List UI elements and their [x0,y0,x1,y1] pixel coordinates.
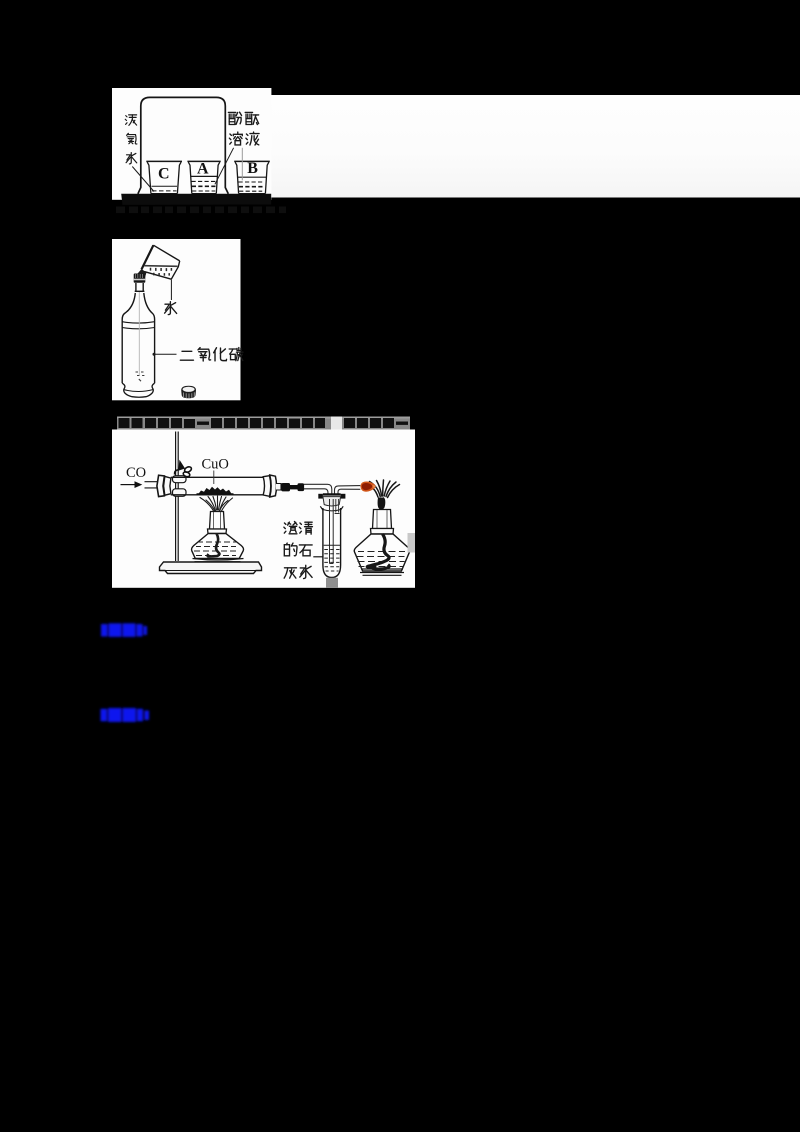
svg-text:B: B [247,160,258,177]
svg-text:A: A [197,161,209,178]
lamp 1 alcohol dashes [194,542,236,556]
bottle neck and shoulder [122,283,154,320]
beaker B [234,161,270,193]
white band behind diagram 1 (full width) [112,95,800,198]
lamp 2 base [360,569,404,575]
CO arrow [121,484,136,486]
bottle body [122,320,154,398]
iron stand base [160,562,262,574]
leader line to beaker C [132,167,154,192]
svg-text:CuO: CuO [202,457,229,473]
svg-text:C: C [158,166,170,183]
outlet nozzle [276,484,281,491]
bell jar [138,97,228,193]
CuO leader line [213,471,215,485]
outlet pipe rising from stopper [335,486,361,495]
beaker A [187,161,220,193]
right stopper [263,475,276,497]
inlet tube double line [145,482,159,488]
lamp 1 wick holder [208,512,227,534]
lamp 2 wick (wavy, inside) [370,534,389,569]
beaker C [146,161,182,193]
glass tube body [171,477,264,495]
burner flame wisps [200,496,233,511]
grey block under test tube [326,578,338,588]
grey patch at panel right edge [408,533,416,553]
label fen-tai (phenolphthalein) [236,112,242,124]
er-yang-hua-tan label (carbon dioxide) [153,353,156,356]
pouring stream into bottle mouth [137,269,147,279]
test tube body [323,508,341,578]
limewater surface and dashes [324,545,340,571]
hui-shui label [284,568,296,578]
faint grey text band above diagram 3 [117,417,410,430]
clamp jaws [173,476,187,483]
flame at gas outlet tip [360,481,376,491]
lamp 1 base [193,559,244,562]
label nong-an-shui (vertical) [125,115,136,126]
rubber connector blobs [281,483,290,491]
thin tube to elbow [304,484,328,489]
left stopper [157,475,171,496]
water dashes inside beaker [151,268,172,276]
lamp 2 wick holder [371,510,394,535]
moisture mark inside bottle bottom [136,372,145,381]
clamp bolt wing [175,461,193,477]
lamp 1 body [192,534,244,559]
inner delivery pipe (long, into liquid) [330,499,334,564]
leader line to beaker A [215,148,234,185]
test tube mouth lip [320,506,343,510]
diagram 3 panel [112,430,415,588]
elbow down into test tube [325,484,332,494]
shui label (water) with leader [170,280,172,301]
lamp 2 flame wisps [366,480,400,498]
svg-text:CO: CO [126,465,146,481]
iron stand rod [175,432,177,562]
diagram 2 panel [112,239,241,400]
black base bar [121,194,271,205]
blue link text 1 (fen-xi) [101,623,147,637]
lamp 1 wick (wavy) [208,534,220,557]
lamp 2 body [354,534,409,571]
lamp 2 alcohol dashes [357,552,406,567]
blue link text 2 (jie-da) [101,708,150,722]
label leader to tube [313,556,322,558]
bottle center highlight line [138,292,140,376]
CuO powder pile [199,487,232,494]
bottle cap (on bottle) [134,274,146,283]
cheng-qing label [284,522,297,534]
leader line to beaker B [241,148,243,181]
diagram 1 panel top sliver [112,88,271,200]
lamp 2 wick [378,498,385,510]
test tube stopper [318,494,345,506]
separate cap on ground [181,386,196,399]
de-shi label [284,543,297,556]
inner outlet stub [335,499,340,514]
faint grey text row under diagram 1 [116,207,286,214]
pouring beaker (tilted) [142,245,180,279]
